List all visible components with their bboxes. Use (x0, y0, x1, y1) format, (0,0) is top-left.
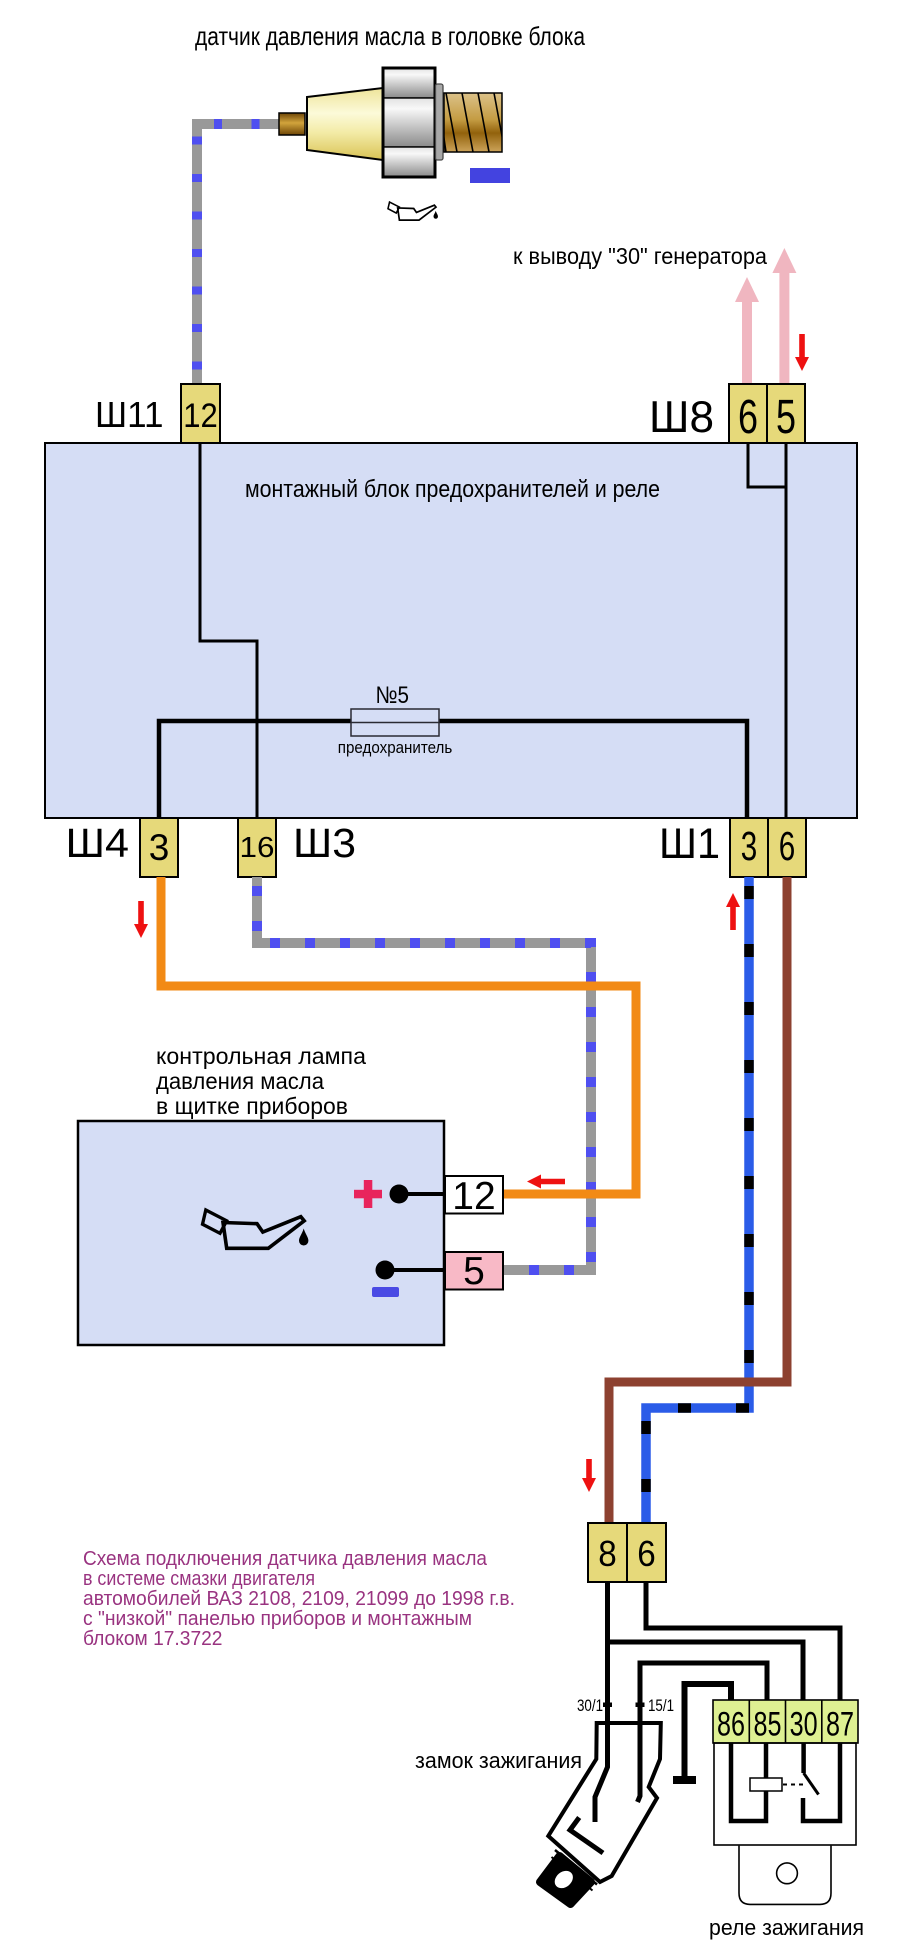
svg-text:реле зажигания: реле зажигания (709, 1915, 864, 1940)
svg-text:6: 6 (779, 823, 796, 869)
relay coil circuit 86-85 (731, 1743, 766, 1821)
wire Ш1-3 to conn 6 (blue with black marks) (646, 877, 749, 1523)
oil can icon in lamp box (203, 1210, 309, 1248)
svg-text:30: 30 (790, 1706, 818, 1744)
pink arrow up (short) (735, 277, 759, 384)
ignition relay terminals (713, 1700, 858, 1743)
relay contact 87 (803, 1743, 840, 1821)
relay body (714, 1743, 856, 1845)
relay contact 30 (801, 1743, 806, 1773)
small oil can icon (388, 202, 438, 220)
svg-text:3: 3 (741, 823, 758, 869)
svg-text:86: 86 (717, 1706, 745, 1744)
connector pin 6 (627, 1523, 666, 1582)
svg-text:давления масла: давления масла (156, 1068, 324, 1094)
svg-text:Ш11: Ш11 (95, 394, 164, 435)
svg-text:блоком 17.3722: блоком 17.3722 (83, 1628, 223, 1650)
fuse №5 (351, 709, 439, 736)
svg-text:30/1: 30/1 (577, 1696, 603, 1715)
caption (purple) (83, 1548, 515, 1650)
switch key head (540, 1856, 591, 1904)
red arrow left (527, 1175, 565, 1189)
lamp pin 12 box (445, 1176, 503, 1214)
red arrow down above conn 8 (582, 1459, 596, 1492)
svg-text:Ш3: Ш3 (293, 820, 356, 866)
relay hole (777, 1863, 798, 1884)
wire Ш3-16 to lamp pin 5 (grey with blue marks) (257, 877, 591, 1270)
oil pressure sensor B1 (279, 68, 510, 183)
connector pin 8 (588, 1523, 627, 1582)
svg-text:контрольная лампа: контрольная лампа (156, 1043, 366, 1069)
wire switch 15/1 to relay 85 (638, 1663, 768, 1802)
svg-text:87: 87 (826, 1706, 854, 1744)
ignition switch body (548, 1723, 661, 1882)
svg-text:№5: №5 (376, 682, 410, 709)
lamp pin 5 box (445, 1252, 503, 1290)
svg-text:замок зажигания: замок зажигания (415, 1748, 582, 1773)
red arrow up below Ш1-3 (726, 893, 740, 930)
connector Ш1 pin 3 (730, 818, 768, 877)
red arrow down at Ш8-5 (795, 334, 809, 371)
connector Ш1 pin 6 (768, 818, 806, 877)
svg-text:85: 85 (754, 1706, 782, 1744)
svg-text:Ш1: Ш1 (659, 821, 720, 868)
svg-text:в щитке приборов: в щитке приборов (156, 1093, 348, 1119)
wire Ш8-6 join (748, 443, 786, 487)
svg-text:6: 6 (738, 391, 758, 444)
wire fuse to Ш1-3 (439, 721, 747, 818)
svg-text:12: 12 (452, 1175, 495, 1218)
wire conn6 to relay 87 (646, 1582, 840, 1700)
connector Ш8 pin 5 (767, 384, 805, 443)
svg-text:5: 5 (463, 1250, 485, 1293)
wire Ш1-6 to conn 8 (brown) (609, 877, 787, 1523)
terminal tick 15/1 (636, 1703, 645, 1708)
relay coil (750, 1778, 782, 1791)
svg-text:3: 3 (149, 827, 170, 868)
svg-text:к выводу "30" генератора: к выводу "30" генератора (513, 243, 767, 269)
wire relay 86 to ground (685, 1684, 732, 1777)
svg-text:с "низкой" панелью приборов и: с "низкой" панелью приборов и монтажным (83, 1608, 472, 1630)
wire Ш8-5 to Ш1-6 (785, 443, 788, 818)
connector Ш4 pin 3 (140, 818, 178, 877)
svg-text:предохранитель: предохранитель (338, 739, 453, 757)
svg-text:монтажный блок предохранителей: монтажный блок предохранителей и реле (245, 476, 660, 503)
pink arrow up (tall) (772, 248, 796, 384)
wire conn8 to switch 30/1 and relay 30 (595, 1582, 608, 1822)
instrument panel lamp box (78, 1121, 444, 1345)
svg-text:Ш8: Ш8 (649, 393, 714, 442)
relay bottom tab (739, 1846, 831, 1905)
connector Ш11 pin 12 (181, 384, 220, 443)
switch collar (555, 1850, 597, 1885)
svg-text:5: 5 (776, 391, 796, 444)
wire Ш4-3 to fuse (159, 721, 351, 818)
svg-text:12: 12 (183, 397, 218, 435)
svg-text:Ш4: Ш4 (66, 820, 130, 866)
minus symbol (372, 1287, 399, 1297)
svg-text:6: 6 (637, 1533, 656, 1574)
svg-text:автомобилей ВАЗ 2108, 2109, 21: автомобилей ВАЗ 2108, 2109, 21099 до 199… (83, 1588, 515, 1610)
dashed link (783, 1784, 807, 1786)
red arrow down below Ш4-3 (134, 901, 148, 938)
plus symbol (354, 1180, 382, 1208)
lamp terminal dot + (390, 1185, 409, 1204)
svg-text:15/1: 15/1 (648, 1696, 674, 1715)
lamp terminal dot - (376, 1261, 395, 1280)
svg-text:в системе смазки двигателя: в системе смазки двигателя (83, 1568, 315, 1590)
ground (673, 1776, 696, 1784)
svg-text:16: 16 (240, 832, 275, 864)
fuse and relay mounting block (45, 443, 857, 818)
wire Ш4-3 to lamp pin 12 (orange) (161, 877, 636, 1194)
connector Ш8 pin 6 (729, 384, 767, 443)
wire sensor to Ш11-12 (grey with blue marks) (197, 124, 281, 386)
wire Ш11-12 to Ш3-16 inside block (200, 443, 257, 818)
svg-text:Схема подключения датчика давл: Схема подключения датчика давления масла (83, 1548, 488, 1570)
switch contact (570, 1818, 603, 1854)
terminal tick 30/1 (603, 1703, 612, 1708)
connector Ш3 pin 16 (238, 818, 276, 877)
svg-text:8: 8 (598, 1533, 617, 1574)
svg-text:датчик давления масла в головк: датчик давления масла в головке блока (195, 21, 585, 51)
